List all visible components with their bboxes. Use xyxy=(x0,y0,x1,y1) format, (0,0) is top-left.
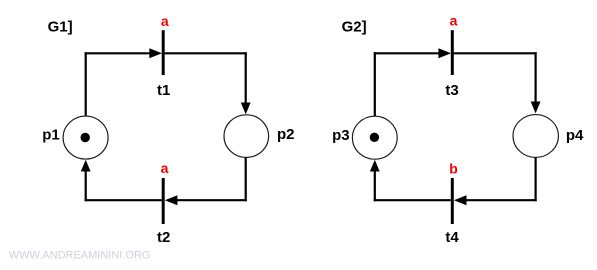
wire t2 to corner (bottom horizontal left) xyxy=(85,199,162,201)
svg-text:p1: p1 xyxy=(42,126,60,143)
label p4 xyxy=(566,127,584,144)
svg-text:t4: t4 xyxy=(445,229,459,246)
place p3 (with token) xyxy=(352,116,397,159)
wire corner up toward p1 (left vertical bottom) xyxy=(85,171,87,202)
svg-text:WWW.ANDREAMININI.ORG: WWW.ANDREAMININI.ORG xyxy=(9,249,151,261)
svg-text:p3: p3 xyxy=(332,127,350,144)
arrowhead into t2 xyxy=(165,195,178,205)
wire corner to t1 arrowhead (top horizontal left) xyxy=(85,52,152,54)
label p1 xyxy=(42,126,60,143)
label a (red) above t3 xyxy=(450,13,458,29)
svg-text:p2: p2 xyxy=(277,126,295,143)
watermark www.andreaminini.org xyxy=(9,249,151,261)
svg-text:b: b xyxy=(449,160,458,176)
label p2 xyxy=(277,126,295,143)
wire corner to t4 arrowhead (bottom horizontal right) xyxy=(464,199,537,201)
wire corner to t2 arrowhead (bottom horizontal right) xyxy=(175,199,247,201)
place p4 xyxy=(513,115,558,158)
arrowhead into t3 xyxy=(438,48,451,58)
arrowhead into p1 xyxy=(81,160,91,172)
wire p1 top to corner (left vertical up) xyxy=(85,52,87,116)
svg-text:t2: t2 xyxy=(157,229,170,246)
label t4 xyxy=(445,229,459,246)
wire corner down toward p2 (right vertical) xyxy=(245,52,247,103)
label t3 xyxy=(445,82,458,99)
svg-text:p4: p4 xyxy=(566,127,584,144)
label t1 xyxy=(157,82,170,99)
transition t4 bar xyxy=(451,178,454,224)
wire corner up toward p3 (left vertical bottom) xyxy=(374,171,376,202)
wire t4 to corner (bottom horizontal left) xyxy=(374,199,451,201)
label a (red) above t2 xyxy=(161,160,169,176)
svg-text:G1]: G1] xyxy=(48,18,73,35)
svg-text:G2]: G2] xyxy=(342,18,367,35)
wire t1 to corner (top horizontal right) xyxy=(165,52,247,54)
transition t3 bar xyxy=(451,30,454,75)
label p3 xyxy=(332,127,350,144)
wire corner to t3 arrowhead (top horizontal left) xyxy=(374,52,441,54)
wire corner down toward p4 (right vertical) xyxy=(534,52,536,102)
svg-text:a: a xyxy=(161,160,169,176)
label b (red) above t4 xyxy=(449,160,458,176)
wire t3 to corner (top horizontal right) xyxy=(454,52,537,54)
arrowhead into p3 xyxy=(370,160,380,172)
svg-text:a: a xyxy=(161,13,169,29)
wire p3 top to corner (left vertical up) xyxy=(374,52,376,116)
arrowhead into t4 xyxy=(454,195,467,205)
label t2 xyxy=(157,229,170,246)
wire p2 bottom down to corner xyxy=(245,158,247,202)
transition t2 bar xyxy=(162,178,165,224)
arrowhead into t1 xyxy=(149,48,162,58)
arrowhead into p2 xyxy=(241,103,251,115)
label G1] xyxy=(48,18,73,35)
place p2 xyxy=(224,115,269,158)
arrowhead into p4 xyxy=(531,102,541,114)
wire p4 bottom down to corner xyxy=(534,158,536,202)
label a (red) above t1 xyxy=(161,13,169,29)
svg-text:t3: t3 xyxy=(445,82,458,99)
place p1 (with token) xyxy=(63,116,108,159)
svg-text:a: a xyxy=(450,13,458,29)
transition t1 bar xyxy=(162,30,165,75)
label G2] xyxy=(342,18,367,35)
svg-text:t1: t1 xyxy=(157,82,170,99)
